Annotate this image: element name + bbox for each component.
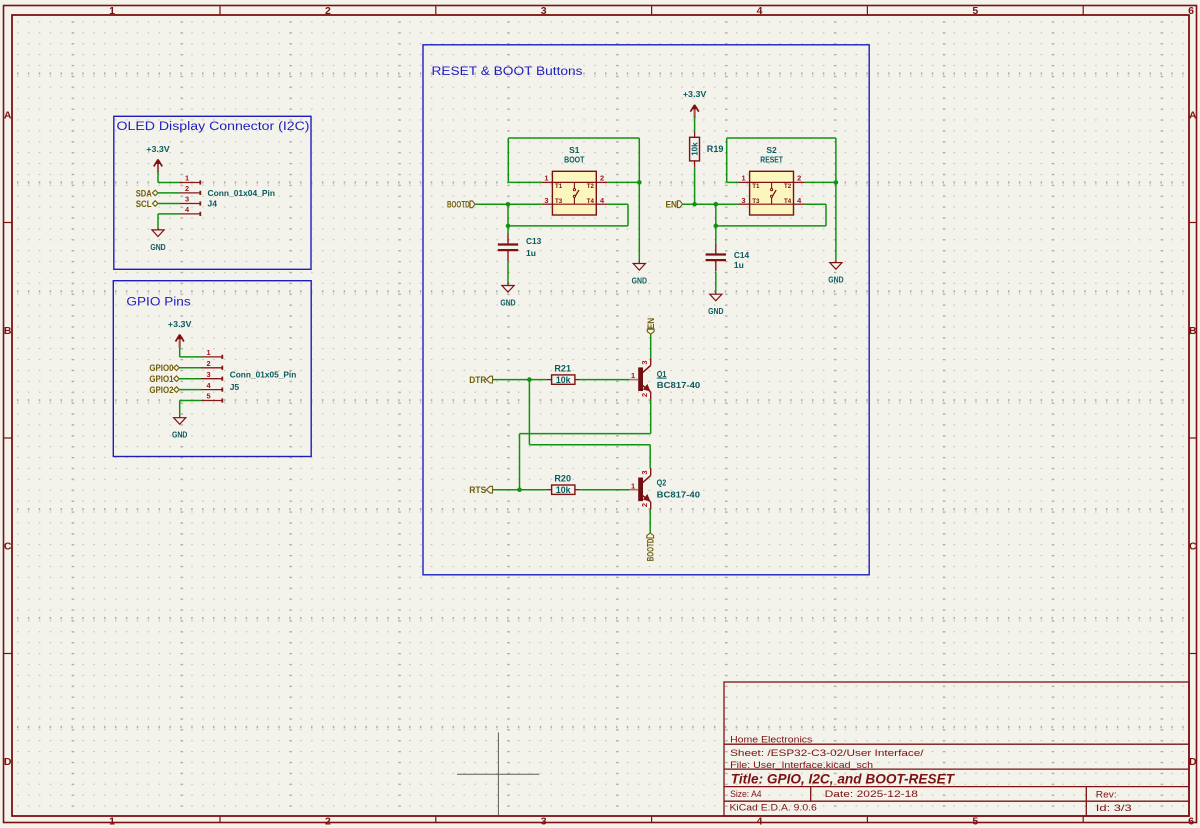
svg-text:1: 1 [206, 348, 210, 357]
svg-text:R20: R20 [554, 473, 571, 483]
svg-text:T4: T4 [784, 198, 792, 205]
svg-text:T4: T4 [587, 198, 595, 205]
wire [158, 192, 180, 194]
wire [694, 167, 696, 204]
wire [627, 204, 629, 226]
svg-text:+3.3V: +3.3V [683, 89, 707, 99]
connector J4 pin 2 [180, 192, 201, 194]
svg-text:B: B [1189, 325, 1197, 337]
ground (S1) [633, 261, 645, 271]
svg-text:2: 2 [600, 174, 604, 183]
connector J5 pin 2 [201, 367, 223, 369]
node: S2 pin2 junction [834, 180, 839, 185]
svg-text:R19: R19 [707, 144, 724, 154]
wire [508, 137, 639, 139]
wire [835, 182, 837, 259]
svg-text:10k: 10k [691, 142, 700, 156]
wire [157, 172, 159, 182]
svg-text:T2: T2 [587, 183, 595, 190]
svg-text:3: 3 [742, 196, 746, 205]
wire [607, 181, 639, 183]
svg-text:GND: GND [150, 242, 165, 252]
svg-text:GND: GND [172, 430, 187, 440]
svg-text:C14: C14 [734, 250, 750, 260]
svg-text:J5: J5 [230, 382, 240, 392]
wire [507, 204, 509, 234]
wire [694, 117, 696, 131]
group box: GPIO Pins [113, 281, 311, 457]
svg-text:Id: 3/3: Id: 3/3 [1096, 803, 1132, 813]
capacitor C14 [715, 244, 717, 255]
wire [493, 379, 547, 381]
transistor Q2 [638, 478, 643, 502]
transistor Q1 [638, 367, 643, 391]
svg-text:3: 3 [185, 195, 189, 204]
wire [715, 204, 717, 244]
svg-text:Date: 2025-12-18: Date: 2025-12-18 [825, 789, 918, 799]
connector J4 pin 4 [180, 213, 201, 215]
node: EN/R19 junction [692, 202, 697, 207]
connector J4 pin 1 [180, 182, 201, 184]
svg-text:2: 2 [325, 5, 331, 17]
connector J5 pin 4 [201, 389, 223, 391]
wire [157, 214, 159, 227]
svg-text:GND: GND [828, 275, 843, 285]
node: S1 pin2 junction [637, 180, 642, 185]
ground (OLED) [152, 227, 164, 237]
wire [638, 182, 640, 260]
node: DTR junction [527, 377, 532, 382]
node: RTS junction [517, 487, 522, 492]
label EN (vertical) [647, 329, 654, 334]
connector J4 pin 3 [180, 203, 201, 205]
svg-text:GND: GND [500, 298, 515, 308]
svg-text:4: 4 [757, 5, 763, 17]
svg-text:A: A [1189, 110, 1197, 122]
wire [650, 334, 652, 358]
svg-text:T2: T2 [784, 183, 792, 190]
wire [475, 203, 541, 205]
svg-text:DTR: DTR [469, 375, 486, 386]
wire [507, 138, 509, 182]
svg-text:KiCad E.D.A. 9.0.6: KiCad E.D.A. 9.0.6 [730, 803, 817, 813]
svg-text:2: 2 [640, 503, 649, 507]
wire [825, 204, 827, 226]
svg-text:3: 3 [640, 360, 649, 364]
ground (C14) [710, 291, 722, 301]
cursor crosshair [497, 733, 499, 816]
svg-text:10k: 10k [556, 485, 571, 495]
node: BOOTD junction [506, 202, 511, 207]
group box: RESET & BOOT Buttons [423, 45, 869, 575]
svg-text:1: 1 [185, 174, 189, 183]
svg-text:Conn_01x04_Pin: Conn_01x04_Pin [208, 188, 276, 198]
svg-text:2: 2 [325, 816, 331, 828]
svg-text:Title: GPIO, I2C, and BOOT-RES: Title: GPIO, I2C, and BOOT-RESET [731, 771, 956, 786]
svg-text:2: 2 [206, 359, 210, 368]
wire [835, 138, 837, 182]
svg-text:6: 6 [1188, 5, 1194, 17]
svg-text:T1: T1 [555, 183, 563, 190]
svg-text:RESET: RESET [760, 155, 783, 165]
resistor R21 [546, 379, 551, 381]
svg-text:J4: J4 [208, 199, 218, 209]
svg-text:1u: 1u [526, 248, 536, 258]
svg-text:1: 1 [631, 371, 635, 380]
wire [683, 203, 739, 205]
svg-text:2: 2 [185, 184, 189, 193]
wire [158, 213, 180, 215]
svg-text:GPIO0: GPIO0 [149, 363, 173, 374]
label BOOTD (vertical) [647, 533, 654, 538]
resistor R20 [546, 489, 551, 491]
wire [805, 181, 836, 183]
wire [638, 138, 640, 182]
connector J5 pin 5 [201, 400, 223, 402]
svg-text:GPIO2: GPIO2 [149, 385, 173, 396]
svg-text:1: 1 [631, 481, 635, 490]
svg-text:5: 5 [972, 816, 978, 828]
svg-text:6: 6 [1188, 816, 1194, 828]
svg-text:Home Electronics: Home Electronics [730, 734, 813, 744]
switch S2 [750, 171, 794, 215]
wire [158, 203, 180, 205]
svg-text:T1: T1 [752, 183, 760, 190]
svg-text:R21: R21 [554, 363, 571, 373]
svg-text:BC817-40: BC817-40 [657, 380, 701, 390]
wire [158, 182, 180, 184]
svg-text:GPIO Pins: GPIO Pins [126, 297, 191, 309]
wire [726, 138, 728, 182]
wire [650, 399, 652, 433]
svg-text:3: 3 [544, 196, 548, 205]
svg-text:Rev:: Rev: [1096, 789, 1117, 799]
svg-text:+3.3V: +3.3V [168, 319, 192, 329]
svg-text:File: User_Interface.kicad_sch: File: User_Interface.kicad_sch [730, 760, 873, 770]
ground (C13) [502, 283, 514, 293]
wire [716, 225, 826, 227]
svg-text:2: 2 [640, 393, 649, 397]
connector J5 pin 1 [201, 356, 223, 358]
svg-text:2: 2 [797, 174, 801, 183]
svg-text:1: 1 [109, 5, 115, 17]
connector J5 pin 3 [201, 378, 223, 380]
node: C13 junction [506, 224, 511, 229]
svg-text:3: 3 [541, 5, 547, 17]
svg-text:GND: GND [708, 306, 723, 316]
svg-text:BC817-40: BC817-40 [657, 490, 701, 500]
wire [179, 378, 201, 380]
svg-text:BOOT: BOOT [564, 155, 585, 165]
svg-text:Q2: Q2 [657, 478, 667, 488]
svg-text:T3: T3 [752, 198, 760, 205]
svg-text:Conn_01x05_Pin: Conn_01x05_Pin [230, 370, 297, 380]
svg-text:SDA: SDA [136, 188, 152, 199]
svg-text:3: 3 [640, 471, 649, 475]
svg-text:Sheet: /ESP32-C3-02/User Inter: Sheet: /ESP32-C3-02/User Interface/ [730, 748, 924, 758]
svg-text:3: 3 [541, 816, 547, 828]
wire [179, 367, 201, 369]
svg-text:BOOTD: BOOTD [447, 200, 470, 211]
svg-text:C: C [4, 541, 12, 553]
wire [180, 400, 201, 402]
svg-text:GND: GND [632, 276, 647, 286]
group box: OLED Display Connector (I2C) [114, 116, 311, 269]
svg-text:T3: T3 [555, 198, 563, 205]
svg-text:10k: 10k [556, 375, 571, 385]
svg-text:RTS: RTS [469, 485, 487, 496]
ground (S2) [830, 260, 842, 270]
svg-text:C13: C13 [526, 236, 542, 246]
wire [649, 510, 651, 533]
svg-text:EN: EN [646, 318, 657, 330]
svg-text:1: 1 [742, 174, 746, 183]
wire [607, 203, 628, 205]
wire [520, 433, 651, 435]
svg-text:Size: A4: Size: A4 [730, 789, 762, 799]
wire [508, 181, 541, 183]
wire [519, 434, 521, 490]
ground (GPIO) [174, 415, 186, 425]
wire [727, 137, 836, 139]
svg-text:D: D [1189, 756, 1197, 768]
svg-text:BOOTD: BOOTD [646, 539, 657, 562]
wire [179, 389, 201, 391]
wire [179, 347, 181, 357]
svg-text:1u: 1u [734, 260, 744, 270]
svg-text:+3.3V: +3.3V [146, 144, 170, 154]
wire [727, 181, 739, 183]
svg-text:5: 5 [972, 5, 978, 17]
wire [180, 356, 201, 358]
wire [528, 380, 530, 445]
svg-text:RESET & BOOT Buttons: RESET & BOOT Buttons [432, 66, 583, 78]
svg-text:D: D [4, 756, 12, 768]
wire [649, 445, 651, 468]
svg-text:4: 4 [757, 816, 763, 828]
svg-text:B: B [4, 325, 12, 337]
svg-text:1: 1 [544, 174, 548, 183]
wire [179, 401, 181, 415]
svg-text:A: A [4, 110, 12, 122]
node: C14 junction [714, 224, 719, 229]
svg-text:OLED Display Connector (I2C): OLED Display Connector (I2C) [117, 121, 310, 133]
node: EN/C14 junction [714, 202, 719, 207]
capacitor C13 [507, 234, 509, 245]
wire [715, 271, 717, 291]
wire [493, 489, 547, 491]
resistor R19 [694, 131, 696, 137]
wire [507, 261, 509, 282]
wire [508, 225, 628, 227]
wire [580, 489, 629, 491]
svg-text:C: C [1189, 541, 1197, 553]
svg-text:3: 3 [206, 370, 210, 379]
svg-text:GPIO1: GPIO1 [149, 374, 174, 385]
wire [805, 203, 826, 205]
svg-text:1: 1 [109, 816, 115, 828]
svg-text:5: 5 [206, 392, 210, 401]
svg-text:EN: EN [666, 200, 678, 211]
svg-text:SCL: SCL [136, 199, 152, 210]
wire [580, 379, 629, 381]
wire [529, 444, 650, 446]
switch S1 [552, 171, 596, 215]
title block [724, 682, 1189, 816]
